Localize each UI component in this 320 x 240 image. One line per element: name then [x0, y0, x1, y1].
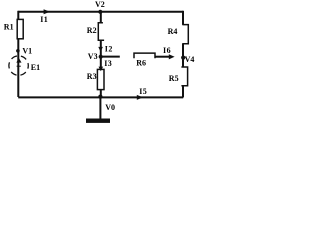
svg-text:R3: R3 — [87, 72, 97, 81]
arrow I2 — [98, 47, 103, 52]
resistor R4 — [182, 25, 188, 44]
svg-text:E1: E1 — [31, 63, 40, 72]
svg-text:I6: I6 — [163, 46, 171, 55]
resistor R1 — [17, 19, 23, 38]
node V4 — [181, 56, 185, 60]
arrow I5 — [137, 95, 143, 100]
ground — [86, 119, 110, 123]
wire top — [18, 11, 183, 13]
svg-text:V3: V3 — [88, 52, 98, 61]
source E1 arrow — [16, 58, 21, 63]
wire left top — [17, 11, 19, 20]
resistor R2 — [98, 23, 104, 40]
wire branch R6 right — [155, 56, 171, 58]
arrow I6 — [169, 54, 175, 59]
svg-text:R6: R6 — [136, 58, 146, 67]
svg-text:V4: V4 — [185, 55, 195, 64]
svg-text:V2: V2 — [95, 0, 105, 9]
svg-text:I5: I5 — [139, 87, 147, 96]
wire right mid — [182, 44, 184, 68]
arrow I1 — [44, 9, 50, 14]
node V0 — [98, 95, 102, 99]
source E1 — [9, 56, 28, 75]
wire right top — [182, 11, 184, 25]
svg-text:I1: I1 — [40, 15, 48, 24]
node V3 — [99, 55, 103, 59]
wire middle top — [100, 12, 102, 23]
svg-text:V0: V0 — [105, 103, 115, 112]
svg-text:I2: I2 — [105, 45, 113, 54]
svg-text:V1: V1 — [22, 46, 32, 55]
wire middle mid — [100, 40, 102, 69]
resistor R3 — [97, 69, 104, 89]
wire branch R6 left — [102, 56, 120, 58]
resistor R5 — [181, 67, 187, 86]
wire left mid — [17, 39, 19, 97]
node V1 — [16, 49, 20, 53]
svg-text:R5: R5 — [169, 74, 179, 83]
wire middle low — [100, 90, 102, 97]
wire ground stub — [99, 97, 101, 119]
svg-text:I3: I3 — [104, 59, 112, 68]
node V2 — [98, 10, 102, 14]
wire bottom — [18, 96, 183, 98]
arrow I3 — [99, 67, 104, 72]
svg-text:R4: R4 — [168, 27, 178, 36]
svg-text:R1: R1 — [4, 23, 14, 32]
wire right low — [182, 86, 184, 98]
svg-text:R2: R2 — [87, 26, 97, 35]
source E1 tick — [17, 65, 21, 67]
resistor R6 — [134, 53, 155, 58]
